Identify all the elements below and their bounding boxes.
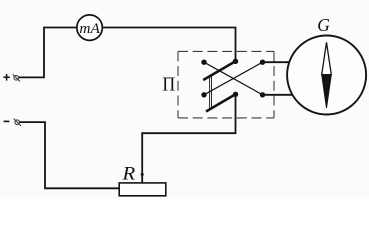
- svg-text:R: R: [121, 163, 135, 184]
- svg-text:G: G: [317, 15, 330, 35]
- svg-text:mA: mA: [79, 21, 100, 37]
- svg-text:П: П: [162, 74, 175, 96]
